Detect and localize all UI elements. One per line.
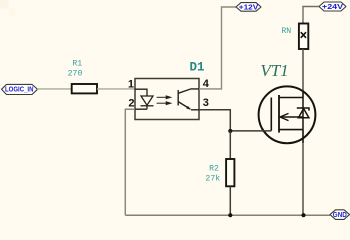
svg-text:270: 270 — [68, 69, 83, 78]
port LOGIC_IN — [2, 84, 38, 94]
wire RN to drain — [302, 49, 304, 92]
svg-text:VT1: VT1 — [260, 61, 288, 80]
svg-text:R1: R1 — [72, 60, 82, 69]
transistor VT1 — [259, 86, 316, 143]
wire pin 4 to +12V — [199, 7, 236, 89]
wire gate node to gate — [230, 130, 271, 132]
wire +24V to RN — [303, 7, 319, 24]
svg-text:D1: D1 — [189, 60, 204, 74]
svg-text:27k: 27k — [205, 174, 220, 184]
svg-text:GND: GND — [333, 212, 347, 219]
radiation arrows of D1 — [157, 96, 171, 105]
phototransistor of D1 — [178, 89, 199, 110]
junction node R2-ground — [228, 213, 232, 217]
LED of D1 — [135, 89, 154, 109]
port GND — [330, 210, 350, 220]
wire R1 to pin 1 — [97, 88, 135, 90]
svg-text:RN: RN — [281, 27, 291, 36]
wire R2 to ground rail — [229, 186, 231, 215]
svg-text:+24V: +24V — [322, 4, 343, 11]
port +12V — [236, 3, 261, 12]
svg-text:R2: R2 — [209, 164, 219, 173]
svg-text:LOGIC_IN: LOGIC_IN — [5, 87, 34, 94]
optocoupler D1 body — [135, 79, 199, 120]
resistor R2 — [226, 159, 234, 186]
svg-text:4: 4 — [203, 78, 210, 90]
resistor R1 — [72, 84, 97, 93]
body diode of VT1 — [297, 98, 309, 130]
wire pin 3 to gate node — [199, 110, 230, 131]
port +24V — [319, 2, 346, 11]
junction node source-ground — [301, 213, 305, 217]
svg-text:1: 1 — [128, 79, 134, 91]
wire pin 2 to ground rail — [125, 109, 135, 215]
svg-text:3: 3 — [203, 97, 209, 109]
wire ground rail — [125, 214, 330, 216]
svg-text:2: 2 — [128, 97, 134, 109]
wire LOGIC_IN to R1 — [37, 88, 72, 90]
junction node at gate — [228, 129, 232, 133]
resistor RN — [299, 24, 308, 50]
wire gate node to R2 — [229, 131, 231, 159]
wire source to ground rail — [302, 143, 304, 215]
svg-text:+12V: +12V — [239, 5, 259, 12]
